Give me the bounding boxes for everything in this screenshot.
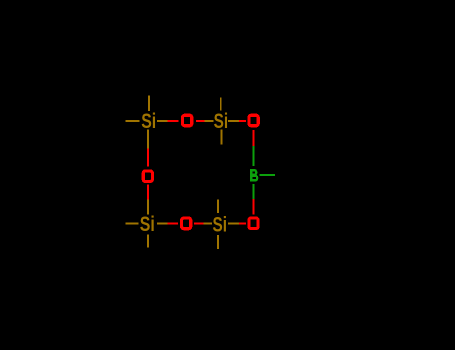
wire Si2 down methyl stub <box>221 130 223 145</box>
wire bond Otr-B (B half) <box>253 146 255 166</box>
wire Si3 left methyl stub <box>126 223 139 225</box>
wire bond Obottom-Si4 (O half) <box>194 223 203 225</box>
wire bond Si1-Otop (Si half) <box>157 120 168 122</box>
wire B right methyl stub <box>260 174 276 176</box>
wire Si4 down methyl stub <box>217 235 219 249</box>
atom O bottom <box>182 218 191 229</box>
wire bond Si1-Oleft (Si half) <box>147 130 149 149</box>
svg-text:Si: Si <box>141 110 156 133</box>
wire Si1 left methyl stub <box>126 120 140 122</box>
wire Si3 down methyl stub <box>147 235 149 248</box>
wire bond Si4-Obr (O half) <box>239 222 246 224</box>
wire bond Si1-Otop (O half) <box>168 120 179 122</box>
atom O bottom-right <box>249 218 258 229</box>
atom O top-right <box>249 115 258 126</box>
wire Si4 up methyl stub <box>217 199 219 213</box>
wire Si2 up methyl stub <box>220 98 222 111</box>
wire bond Oleft-Si3 (Si half) <box>147 200 149 215</box>
wire bond Oleft-Si3 (O half) <box>147 185 149 200</box>
wire bond Otr-B (O half) <box>253 130 255 146</box>
atom O left <box>143 171 152 182</box>
wire bond Otop-Si2 (O half) <box>196 120 205 122</box>
wire bond B-Obr (B half) <box>253 184 255 199</box>
wire bond Si2-Otr (Si half) <box>228 120 239 122</box>
wire bond Obottom-Si4 (Si half) <box>203 223 212 225</box>
wire Si1 up methyl stub <box>148 96 150 111</box>
atom O top <box>183 115 192 126</box>
wire bond Si2-Otr (O half) <box>239 120 246 122</box>
svg-text:Si: Si <box>214 110 229 133</box>
svg-text:Si: Si <box>140 213 155 236</box>
wire bond Otop-Si2 (Si half) <box>205 120 214 122</box>
wire bond B-Obr (O half) <box>253 199 255 215</box>
svg-text:Si: Si <box>213 214 228 237</box>
wire bond Si1-Oleft (O half) <box>147 149 149 167</box>
wire bond Si3-Obottom (Si half) <box>157 223 168 225</box>
wire bond Si3-Obottom (O half) <box>168 223 179 225</box>
wire bond Si4-Obr (Si half) <box>228 222 239 224</box>
atom B <box>250 169 252 181</box>
